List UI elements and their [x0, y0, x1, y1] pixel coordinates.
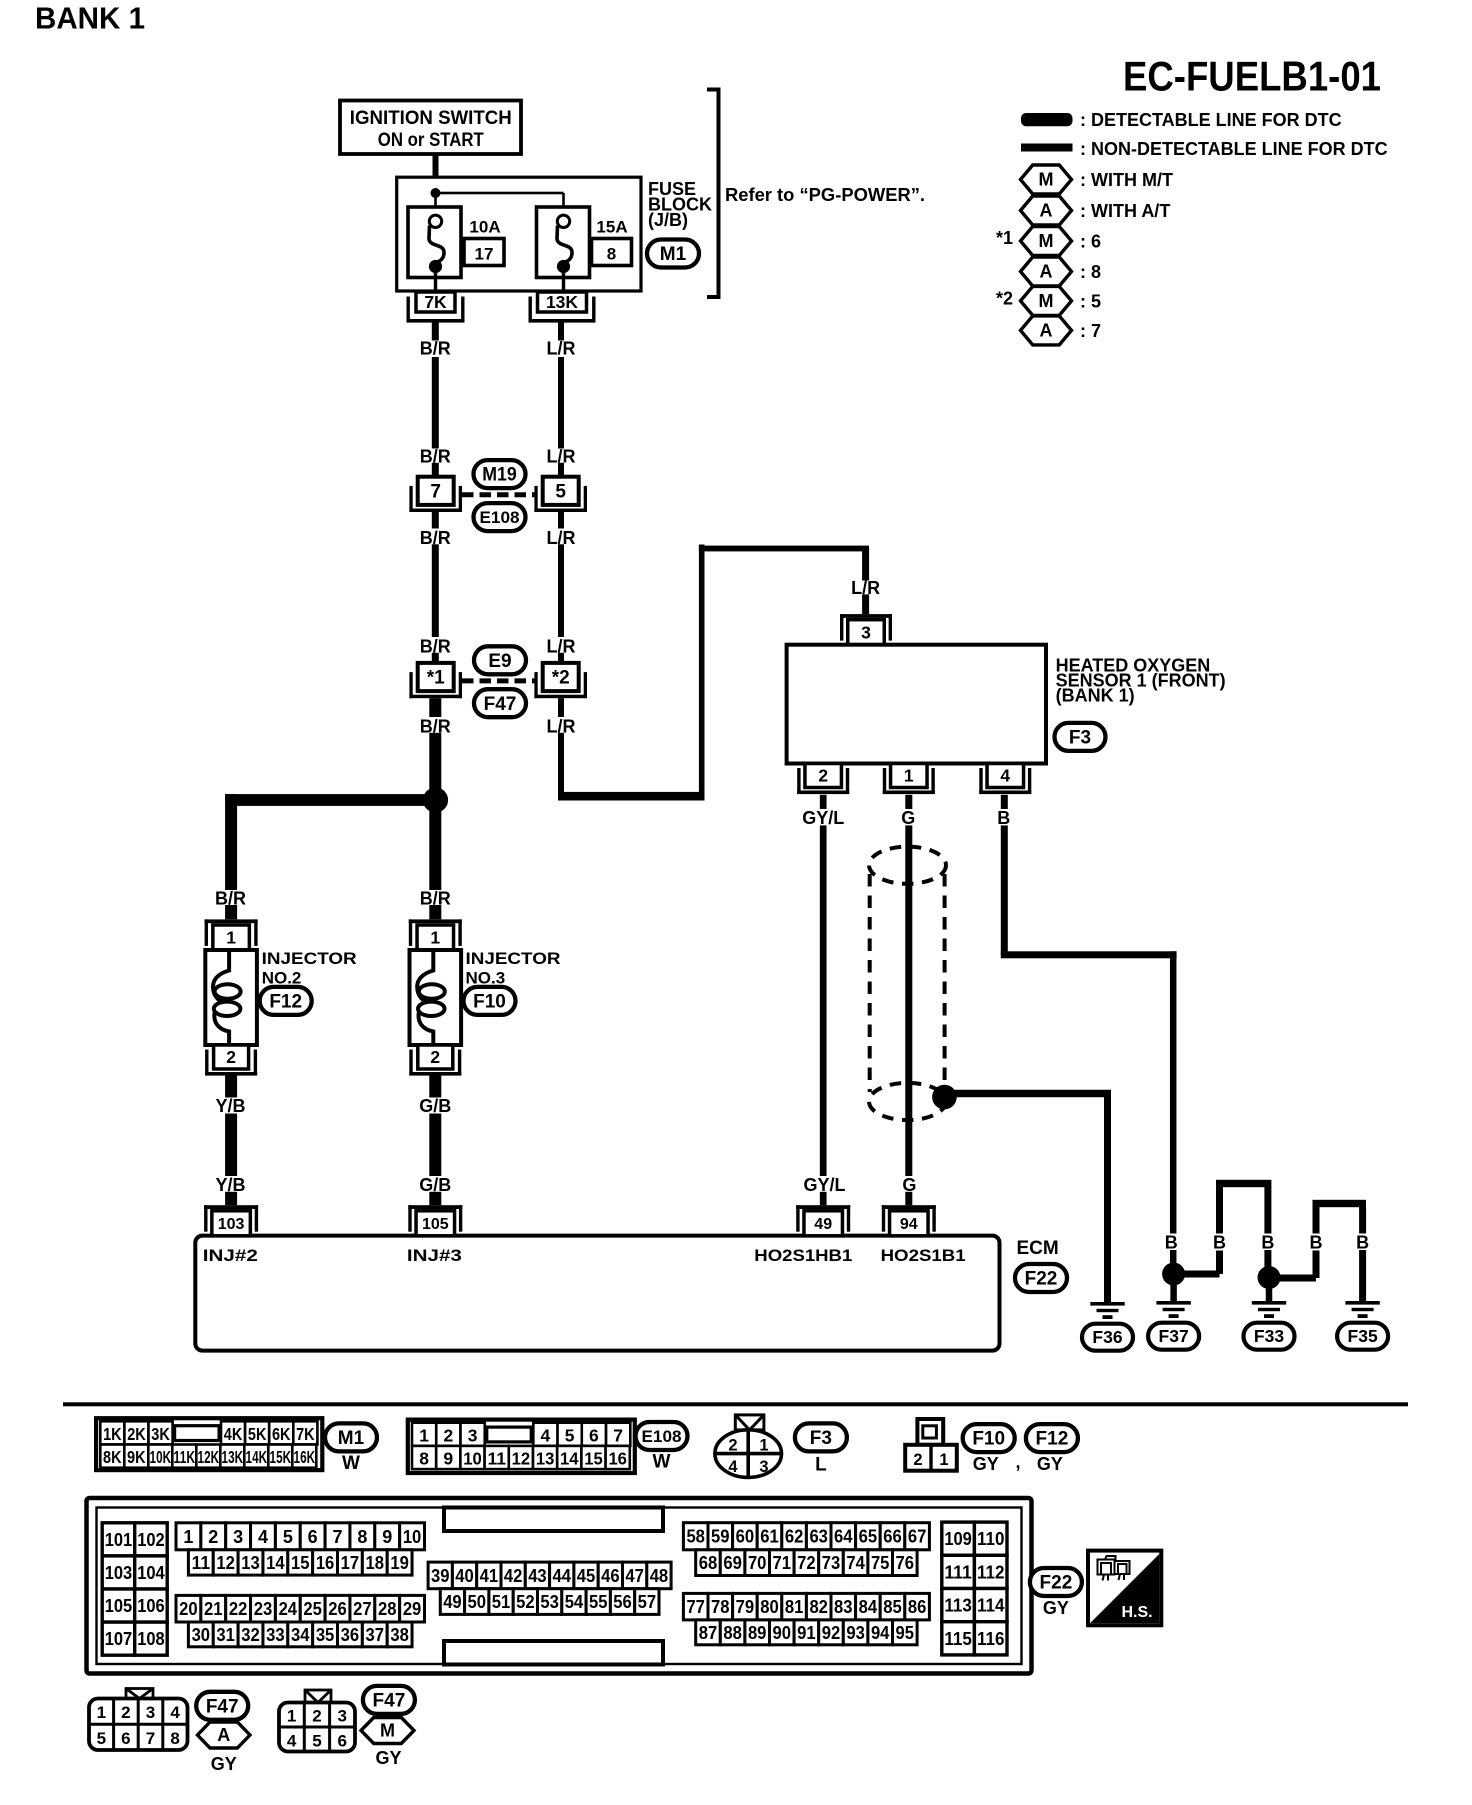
wire link F37 to staple1: [1184, 1271, 1220, 1278]
ECM pinout rows 20-38: [176, 1595, 201, 1622]
wire B/R horizontal to injector No.2: [225, 794, 441, 806]
wire L/R staircase: [558, 792, 705, 801]
svg-text:11: 11: [192, 1553, 211, 1573]
svg-text:33: 33: [266, 1625, 285, 1645]
ECM pinout rows 1-19: [176, 1523, 201, 1550]
connector terminal 105: [416, 1211, 455, 1236]
wire: [1264, 1250, 1271, 1267]
wire: [432, 463, 439, 477]
wire staple2 top: [1313, 1200, 1367, 1207]
ECM pinout outer box: [87, 1498, 1032, 1674]
svg-text:18: 18: [366, 1553, 385, 1573]
connector *1 (E9/F47): [418, 663, 454, 691]
heated oxygen sensor 1 box: [787, 645, 1046, 764]
connector oval M19: [474, 460, 526, 488]
wire: [429, 905, 441, 919]
svg-text:3: 3: [233, 1527, 243, 1547]
svg-text:8: 8: [607, 245, 616, 264]
svg-text:3: 3: [338, 1707, 347, 1726]
hexagon M: [361, 1718, 414, 1744]
svg-text:42: 42: [504, 1566, 523, 1586]
node junction dot B/R: [423, 787, 448, 812]
connector pinout F10/F12: [917, 1419, 943, 1445]
svg-text:F47: F47: [484, 694, 517, 715]
wire staple2 right leg: [1359, 1207, 1366, 1234]
wire: [558, 733, 564, 800]
svg-text:6: 6: [308, 1527, 318, 1547]
svg-text:HO2S1HB1: HO2S1HB1: [754, 1246, 852, 1265]
wire: [820, 825, 827, 1176]
svg-text:70: 70: [748, 1553, 767, 1573]
wire shield to ground F36: [944, 1090, 1111, 1098]
node shield drain dot: [932, 1085, 957, 1110]
svg-text:10A: 10A: [469, 218, 500, 237]
svg-text:2: 2: [728, 1437, 737, 1455]
svg-text:7K: 7K: [296, 1424, 315, 1444]
svg-text:88: 88: [723, 1623, 742, 1643]
svg-text:F3: F3: [1069, 727, 1091, 748]
svg-text:77: 77: [686, 1597, 705, 1617]
svg-text:116: 116: [977, 1628, 1005, 1649]
svg-text:NO.2: NO.2: [262, 969, 302, 988]
connector terminal 2 (injector): [418, 1045, 453, 1069]
svg-text:13: 13: [536, 1449, 555, 1469]
connector pinout M1 grid: [96, 1418, 322, 1470]
svg-text:66: 66: [883, 1527, 902, 1547]
svg-text:12K: 12K: [198, 1447, 220, 1467]
svg-text:83: 83: [834, 1597, 853, 1617]
ground F35: [1345, 1301, 1379, 1305]
svg-text:B: B: [1261, 1233, 1274, 1253]
connector oval E108: [474, 503, 526, 531]
svg-text:G: G: [901, 808, 915, 828]
wire: [1170, 1250, 1177, 1263]
svg-text:69: 69: [723, 1553, 742, 1573]
svg-text:13: 13: [241, 1553, 260, 1573]
svg-text:4: 4: [287, 1732, 297, 1751]
svg-text:80: 80: [760, 1597, 779, 1617]
svg-text:2: 2: [818, 766, 828, 786]
svg-text:36: 36: [341, 1625, 360, 1645]
connector oval E108 (pinout): [636, 1422, 688, 1450]
svg-text:10: 10: [463, 1449, 482, 1469]
svg-text:F3: F3: [810, 1428, 832, 1449]
svg-text:9: 9: [382, 1527, 392, 1547]
svg-text:13K: 13K: [546, 292, 578, 312]
svg-text:F47: F47: [373, 1690, 406, 1711]
svg-text:59: 59: [711, 1527, 730, 1547]
wire Y/B from injector No.2: [225, 1076, 237, 1098]
svg-text:F22: F22: [1025, 1269, 1058, 1290]
svg-text:10: 10: [403, 1527, 422, 1547]
node dot at F33: [1258, 1266, 1281, 1289]
svg-text:102: 102: [137, 1529, 165, 1550]
wire B/R down to injector No.3: [429, 806, 441, 890]
svg-text:B: B: [1356, 1233, 1369, 1253]
connector terminal 13K: [538, 292, 587, 312]
wire L/R from 13K down: [558, 322, 564, 341]
svg-text:17: 17: [475, 245, 494, 264]
svg-text:52: 52: [516, 1592, 535, 1612]
wire B/R down to injector No.2: [225, 794, 237, 890]
svg-text:1: 1: [430, 928, 440, 948]
svg-text:M19: M19: [482, 465, 517, 486]
svg-text:: WITH A/T: : WITH A/T: [1080, 201, 1170, 221]
legend hexagon A :7: [1021, 316, 1072, 345]
legend hexagon A with A/T: [1021, 196, 1072, 225]
svg-text:24: 24: [279, 1599, 298, 1619]
svg-text:H.S.: H.S.: [1121, 1604, 1152, 1621]
wire link F33 to staple2: [1279, 1275, 1316, 1282]
svg-text:2K: 2K: [127, 1424, 146, 1444]
svg-text:15: 15: [584, 1449, 603, 1469]
connector terminal 103: [212, 1211, 251, 1236]
svg-text:GY: GY: [1043, 1598, 1069, 1618]
svg-text:INJ#3: INJ#3: [407, 1246, 462, 1265]
injector NO.2 body: [205, 950, 257, 1045]
connector terminal 7K: [416, 292, 455, 312]
svg-text:40: 40: [455, 1566, 474, 1586]
svg-text:E108: E108: [642, 1427, 682, 1446]
svg-text:7: 7: [613, 1425, 623, 1445]
wire ignition to fuse block: [433, 155, 439, 193]
node junction dot inside fuse block: [431, 188, 441, 198]
svg-text:87: 87: [699, 1623, 718, 1643]
svg-text:95: 95: [896, 1623, 915, 1643]
wire: [1216, 1187, 1223, 1234]
svg-text:62: 62: [785, 1527, 804, 1547]
svg-text:7: 7: [146, 1729, 155, 1748]
svg-text:B: B: [1310, 1233, 1323, 1253]
svg-text:6: 6: [338, 1732, 347, 1751]
svg-text:5: 5: [565, 1425, 575, 1445]
wire: [432, 653, 439, 663]
svg-text:(J/B): (J/B): [648, 210, 688, 230]
legend hexagon A :8: [1021, 257, 1072, 286]
svg-text:GY: GY: [1037, 1454, 1063, 1474]
svg-text:M1: M1: [338, 1428, 365, 1449]
svg-text:12: 12: [512, 1449, 531, 1469]
ECM pinout rows 58-76: [683, 1523, 708, 1550]
ECM pinout left grid 101-108: [102, 1523, 135, 1556]
svg-text:A: A: [1040, 201, 1053, 221]
svg-text:15: 15: [291, 1553, 310, 1573]
wire B/R from 7K down: [432, 322, 439, 341]
svg-text:5: 5: [312, 1732, 321, 1751]
svg-text:NO.3: NO.3: [466, 969, 506, 988]
svg-text:50: 50: [468, 1592, 487, 1612]
svg-text:72: 72: [797, 1553, 816, 1573]
connector oval F12 (pinout): [1026, 1424, 1078, 1452]
svg-text:111: 111: [944, 1561, 972, 1582]
connector oval F47: [196, 1692, 248, 1720]
svg-text:F10: F10: [972, 1429, 1005, 1450]
svg-text:3: 3: [861, 622, 871, 642]
wire B from pin 4: [1001, 795, 1008, 809]
svg-text:58: 58: [686, 1527, 705, 1547]
wire thin feeds to fuses: [434, 193, 437, 216]
svg-text:79: 79: [736, 1597, 755, 1617]
wire GY/L: [820, 795, 827, 809]
svg-text:INJ#2: INJ#2: [203, 1246, 258, 1265]
svg-text:A: A: [217, 1725, 230, 1745]
H.S. view symbol: [1088, 1551, 1161, 1626]
separator line: [63, 1402, 1408, 1406]
svg-text:14: 14: [560, 1449, 579, 1469]
svg-text:44: 44: [553, 1566, 572, 1586]
connector *2 (E9/F47): [543, 663, 579, 691]
svg-text:13K: 13K: [222, 1447, 244, 1467]
svg-text:7: 7: [333, 1527, 343, 1547]
svg-text:F22: F22: [1040, 1573, 1073, 1594]
wire: [1359, 1250, 1366, 1302]
svg-text:A: A: [1040, 321, 1053, 341]
svg-text:2: 2: [430, 1047, 440, 1067]
svg-text:E9: E9: [488, 651, 511, 672]
svg-text:W: W: [342, 1453, 360, 1474]
connector terminal 49: [804, 1211, 843, 1236]
svg-text:6K: 6K: [272, 1424, 291, 1444]
svg-text:49: 49: [814, 1216, 832, 1233]
connector pinout F3 round: [735, 1415, 764, 1430]
svg-text:Refer to “PG-POWER”.: Refer to “PG-POWER”.: [725, 185, 925, 205]
svg-text:INJECTOR: INJECTOR: [466, 949, 561, 968]
svg-text:103: 103: [218, 1216, 245, 1233]
wire: [1001, 825, 1008, 954]
connector oval F22 (pinout): [1030, 1568, 1082, 1596]
svg-text:M1: M1: [660, 244, 687, 265]
svg-text:39: 39: [431, 1566, 450, 1586]
svg-text:G/B: G/B: [419, 1096, 451, 1116]
wire: [558, 357, 564, 449]
svg-text:60: 60: [736, 1527, 755, 1547]
svg-text:76: 76: [896, 1553, 915, 1573]
svg-text:31: 31: [216, 1625, 235, 1645]
svg-text:8K: 8K: [103, 1447, 122, 1467]
wire: [862, 594, 869, 614]
svg-text:INJECTOR: INJECTOR: [262, 949, 357, 968]
connector terminal 2 (sensor): [805, 764, 842, 788]
svg-text:21: 21: [204, 1599, 223, 1619]
svg-text:4: 4: [170, 1703, 180, 1722]
connector 7 (M19/E108): [418, 477, 454, 505]
svg-text:GY: GY: [375, 1748, 401, 1768]
svg-text:F47: F47: [206, 1696, 239, 1717]
svg-text:IGNITION SWITCH: IGNITION SWITCH: [350, 108, 512, 129]
connector terminal 4 (sensor): [987, 764, 1024, 788]
svg-text:46: 46: [601, 1566, 620, 1586]
svg-text:37: 37: [366, 1625, 385, 1645]
svg-text:5: 5: [555, 481, 566, 502]
svg-text:5K: 5K: [248, 1424, 267, 1444]
ECM pinout rows 77-95: [683, 1593, 708, 1620]
svg-text:16K: 16K: [294, 1447, 316, 1467]
fuse 15A symbol: [537, 207, 590, 278]
svg-text:86: 86: [908, 1597, 927, 1617]
svg-text:4: 4: [1000, 766, 1010, 786]
svg-text:94: 94: [900, 1216, 918, 1233]
svg-text:10K: 10K: [150, 1447, 172, 1467]
svg-text:M: M: [1039, 291, 1054, 311]
svg-text:57: 57: [638, 1592, 657, 1612]
svg-text:4K: 4K: [224, 1424, 243, 1444]
svg-text:L: L: [815, 1455, 827, 1476]
svg-text:63: 63: [809, 1527, 828, 1547]
shield dashed side lines: [868, 874, 872, 1092]
svg-text:85: 85: [883, 1597, 902, 1617]
wire: [558, 544, 564, 637]
svg-text:3: 3: [759, 1458, 768, 1476]
wire: [225, 1192, 237, 1205]
svg-text:8: 8: [419, 1449, 429, 1469]
connector oval F3 (pinout): [795, 1423, 847, 1451]
svg-text:17: 17: [341, 1553, 360, 1573]
connector terminal 1 (injector): [417, 925, 454, 950]
svg-text:114: 114: [977, 1595, 1005, 1616]
svg-text:*1: *1: [427, 668, 445, 689]
svg-text:110: 110: [977, 1528, 1005, 1549]
svg-text:11: 11: [487, 1449, 506, 1469]
svg-text:14: 14: [266, 1553, 285, 1573]
ground F36: [1090, 1302, 1124, 1306]
svg-text:30: 30: [192, 1625, 211, 1645]
svg-text:113: 113: [944, 1595, 972, 1616]
svg-text:A: A: [1040, 262, 1053, 282]
svg-text:105: 105: [105, 1595, 133, 1616]
svg-text:L/R: L/R: [547, 339, 576, 359]
svg-text:67: 67: [908, 1527, 927, 1547]
svg-text:35: 35: [316, 1625, 335, 1645]
wire: [558, 463, 564, 477]
wire B/R detectable down to junction: [429, 733, 441, 806]
svg-text:25: 25: [303, 1599, 322, 1619]
legend non-detectable line bar: [1021, 144, 1073, 152]
svg-text:: NON-DETECTABLE LINE FOR DTC: : NON-DETECTABLE LINE FOR DTC: [1080, 139, 1388, 159]
svg-text:51: 51: [492, 1592, 511, 1612]
ECM pinout top notch: [444, 1508, 663, 1532]
svg-text:6: 6: [121, 1729, 130, 1748]
connector oval F10 (pinout): [963, 1424, 1015, 1452]
svg-text:ECM: ECM: [1017, 1238, 1059, 1259]
connector oval F3: [1055, 723, 1106, 751]
svg-text:56: 56: [613, 1592, 632, 1612]
svg-text:28: 28: [378, 1599, 397, 1619]
legend hexagon M with M/T: [1021, 165, 1072, 194]
svg-text:26: 26: [328, 1599, 347, 1619]
ignition switch box: [340, 101, 521, 155]
svg-text:1: 1: [287, 1707, 296, 1726]
wire dashed link 7 to 5: [462, 492, 534, 497]
svg-text:73: 73: [822, 1553, 841, 1573]
svg-text:8: 8: [357, 1527, 367, 1547]
svg-text:48: 48: [650, 1566, 669, 1586]
connector oval F10: [464, 987, 516, 1015]
svg-text:1: 1: [939, 1451, 948, 1469]
wire: [429, 1114, 441, 1177]
svg-text:*1: *1: [996, 228, 1013, 248]
svg-text:GY/L: GY/L: [802, 808, 844, 828]
wire: [432, 544, 439, 637]
svg-text:2: 2: [208, 1527, 218, 1547]
svg-text:20: 20: [179, 1599, 198, 1619]
svg-text:2: 2: [913, 1451, 922, 1469]
svg-text:F37: F37: [1159, 1326, 1189, 1346]
svg-text:15K: 15K: [270, 1447, 292, 1467]
bracket refer to PG-POWER: [707, 90, 719, 298]
connector pinout F47 (A/T): [126, 1689, 153, 1699]
svg-text:1: 1: [419, 1425, 429, 1445]
svg-text:19: 19: [390, 1553, 409, 1573]
svg-text:6: 6: [589, 1425, 599, 1445]
svg-text:71: 71: [773, 1553, 792, 1573]
svg-text:F36: F36: [1092, 1327, 1122, 1347]
svg-text:,: ,: [1015, 1452, 1020, 1472]
svg-text:75: 75: [871, 1553, 890, 1573]
svg-text:9: 9: [443, 1449, 453, 1469]
wire: [558, 653, 564, 663]
svg-text:106: 106: [137, 1595, 165, 1616]
svg-text:38: 38: [390, 1625, 409, 1645]
wire staple1 top: [1216, 1180, 1271, 1187]
connector oval F47 (M/T): [363, 1686, 415, 1714]
svg-text:61: 61: [760, 1527, 779, 1547]
svg-text:8: 8: [170, 1729, 179, 1748]
svg-text:B: B: [997, 808, 1010, 828]
svg-text:65: 65: [859, 1527, 878, 1547]
svg-text:112: 112: [977, 1561, 1005, 1582]
ground F37: [1156, 1301, 1190, 1305]
svg-text:23: 23: [254, 1599, 273, 1619]
svg-text:4: 4: [258, 1527, 268, 1547]
svg-text:115: 115: [944, 1628, 972, 1649]
wire B main down to F37: [1170, 951, 1177, 1233]
wire dashed link *1 to *2: [462, 678, 534, 683]
svg-text:90: 90: [773, 1623, 792, 1643]
connector oval F12: [260, 987, 312, 1015]
connector oval M1 (pinout): [325, 1423, 377, 1451]
svg-text:B: B: [1165, 1233, 1178, 1253]
svg-text:108: 108: [137, 1628, 165, 1649]
wire: [225, 905, 237, 919]
svg-text:HO2S1B1: HO2S1B1: [881, 1246, 966, 1265]
svg-text:93: 93: [846, 1623, 865, 1643]
svg-text:92: 92: [822, 1623, 841, 1643]
svg-text:2: 2: [121, 1703, 130, 1722]
wire: [1313, 1207, 1320, 1234]
svg-text:F12: F12: [1036, 1429, 1069, 1450]
svg-text:104: 104: [137, 1562, 165, 1583]
svg-text:89: 89: [748, 1623, 767, 1643]
svg-text:1: 1: [904, 766, 914, 786]
ECM pinout right grid 109-116: [942, 1522, 975, 1555]
ground F33: [1252, 1301, 1286, 1305]
ECM pinout bottom notch: [444, 1641, 663, 1665]
svg-text:27: 27: [353, 1599, 372, 1619]
svg-text:F12: F12: [269, 991, 302, 1012]
svg-text:22: 22: [229, 1599, 248, 1619]
svg-text:1: 1: [226, 928, 236, 948]
svg-text:F35: F35: [1348, 1326, 1378, 1346]
svg-text:34: 34: [291, 1625, 310, 1645]
svg-text:5: 5: [283, 1527, 293, 1547]
connector terminal 94: [890, 1211, 929, 1236]
svg-text:84: 84: [859, 1597, 878, 1617]
connector 5 (M19/E108): [543, 477, 579, 505]
hexagon A: [197, 1722, 250, 1748]
connector pinout E108 grid: [408, 1420, 635, 1473]
svg-text:2: 2: [226, 1047, 236, 1067]
connector oval M1: [647, 240, 699, 268]
